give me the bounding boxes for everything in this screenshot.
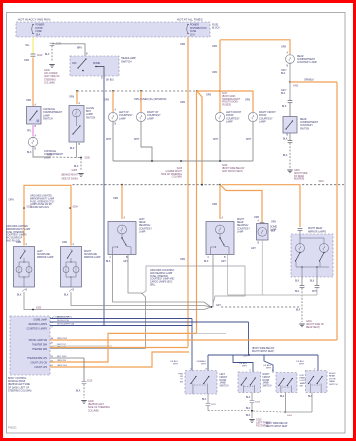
svg-text:(LOWER RIGHT: (LOWER RIGHT (165, 171, 182, 173)
svg-text:FRONT: FRONT (263, 377, 271, 379)
svg-text:ORN: ORN (69, 97, 74, 99)
svg-text:BLK: BLK (45, 54, 50, 56)
svg-text:DRL): DRL) (150, 285, 155, 287)
svg-text:(RIGHT SIDE OF: (RIGHT SIDE OF (306, 324, 325, 326)
svg-text:GRY: GRY (251, 248, 256, 250)
svg-text:S229: S229 (222, 165, 228, 167)
svg-text:S426: S426 (293, 86, 299, 88)
svg-text:S206: S206 (85, 158, 91, 160)
svg-text:ORN: ORN (212, 72, 217, 74)
svg-text:(BEHIND RIGHT: (BEHIND RIGHT (61, 174, 78, 176)
svg-text:BLK: BLK (70, 148, 75, 150)
svg-text:YEL: YEL (25, 45, 30, 47)
svg-text:REAR: REAR (237, 221, 244, 224)
svg-text:(W/O PLUGS): (W/O PLUGS) (6, 241, 20, 243)
svg-text:DISTRIBUTION: DISTRIBUTION (190, 28, 207, 30)
svg-text:STEERING: STEERING (44, 79, 56, 81)
svg-text:(BODY WIRE BELOW: (BODY WIRE BELOW (222, 168, 245, 170)
svg-text:COURTESY: COURTESY (139, 228, 152, 230)
svg-text:SIDE OF DASH): SIDE OF DASH) (61, 178, 78, 181)
svg-text:MIRROR/VANITY LAMP: MIRROR/VANITY LAMP (30, 197, 55, 200)
svg-text:COURTESY: COURTESY (300, 125, 313, 127)
svg-text:REAR: REAR (329, 375, 335, 378)
svg-text:BLK: BLK (295, 281, 300, 283)
svg-text:15 A: 15 A (190, 33, 195, 36)
svg-text:ORN: ORN (104, 100, 109, 102)
svg-text:JAMB: JAMB (329, 380, 335, 383)
svg-text:RIGHT FRONT SEAT): RIGHT FRONT SEAT) (252, 350, 274, 353)
svg-text:SUNSHADE: SUNSHADE (84, 253, 97, 256)
svg-text:BODY WIRE BELOW: BODY WIRE BELOW (266, 423, 288, 425)
svg-text:S247: S247 (243, 356, 249, 358)
svg-text:JAMB: JAMB (300, 382, 306, 385)
svg-text:SW: SW (180, 381, 183, 383)
svg-text:S216: S216 (87, 381, 93, 383)
svg-text:SWITCH: SWITCH (263, 386, 272, 388)
svg-text:MODULE (BCM): MODULE (BCM) (8, 381, 26, 383)
svg-text:G303: G303 (294, 170, 300, 172)
svg-text:RIGHT FRONT SEAT: RIGHT FRONT SEAT (266, 425, 288, 428)
svg-text:FUSE: FUSE (212, 25, 219, 27)
svg-text:LAMPS FUSE ON RH: LAMPS FUSE ON RH (30, 203, 52, 206)
svg-text:BLK: BLK (76, 391, 81, 393)
svg-text:S410: S410 (319, 181, 325, 183)
svg-text:GRY: GRY (221, 261, 226, 263)
svg-text:FUSE, INTERIOR: FUSE, INTERIOR (6, 232, 24, 234)
svg-text:COLUMN): COLUMN) (88, 410, 99, 412)
svg-text:GRY: GRY (216, 305, 221, 307)
svg-text:HARNESS RIGHT: HARNESS RIGHT (222, 98, 241, 101)
svg-text:REAR SEAT): REAR SEAT) (306, 326, 320, 329)
svg-text:COMPARTMENT: COMPARTMENT (300, 121, 319, 124)
svg-text:LAMP/: LAMP/ (86, 113, 93, 116)
svg-text:DK BLU: DK BLU (263, 365, 271, 367)
svg-text:BLK: BLK (295, 291, 300, 293)
svg-text:F96023: F96023 (8, 427, 17, 430)
svg-text:READING LAMPS: READING LAMPS (29, 323, 48, 326)
svg-text:SW: SW (300, 385, 303, 387)
svg-text:DK BLU: DK BLU (106, 80, 114, 82)
svg-text:15 A: 15 A (36, 33, 41, 36)
svg-text:BLOCK: BLOCK (212, 28, 220, 30)
svg-text:LAMP: LAMP (147, 117, 154, 120)
svg-text:GROUNDS COURTESY: GROUNDS COURTESY (150, 270, 175, 272)
svg-text:ORN: ORN (113, 198, 118, 200)
svg-text:DOOR: DOOR (263, 380, 270, 382)
svg-text:SWITCH: SWITCH (121, 59, 132, 63)
svg-text:ORN: ORN (212, 46, 217, 48)
svg-text:S217: S217 (222, 93, 228, 95)
svg-text:DK BLU: DK BLU (170, 361, 178, 363)
svg-text:WHT: WHT (266, 368, 272, 370)
svg-text:WHT: WHT (134, 139, 140, 141)
svg-text:BLK: BLK (204, 261, 209, 263)
svg-text:BLK: BLK (281, 73, 286, 75)
svg-text:BODY CONTROL: BODY CONTROL (8, 378, 27, 380)
svg-text:REAR: REAR (300, 118, 307, 121)
svg-text:(BEHIND LEFT: (BEHIND LEFT (88, 404, 104, 406)
svg-text:GROUNDS LIGHTED: GROUNDS LIGHTED (6, 226, 28, 228)
svg-text:COURTESY LAMPS: COURTESY LAMPS (6, 234, 27, 237)
svg-text:LEFT: LEFT (220, 374, 226, 376)
svg-text:BLK: BLK (246, 397, 251, 399)
svg-text:WHT: WHT (299, 364, 305, 366)
svg-text:REAR: REAR (300, 377, 306, 380)
svg-text:(ON LOWER: (ON LOWER (44, 73, 58, 75)
svg-text:BLK: BLK (246, 408, 251, 410)
svg-text:REAR: REAR (297, 55, 304, 58)
svg-text:SIDE OF STEERING: SIDE OF STEERING (161, 174, 182, 176)
svg-text:BLK: BLK (246, 415, 251, 417)
svg-text:OF REAR: OF REAR (294, 175, 304, 178)
svg-text:READING/: READING/ (237, 224, 249, 227)
svg-text:LEFT FRONT SEAT): LEFT FRONT SEAT) (222, 170, 243, 173)
svg-text:S308: S308 (47, 155, 53, 157)
svg-text:READING/: READING/ (139, 224, 151, 227)
svg-text:COURTESY: COURTESY (237, 228, 250, 230)
svg-text:BLK: BLK (310, 281, 315, 283)
svg-text:BLK: BLK (281, 93, 286, 95)
svg-text:RIGHT: RIGHT (263, 374, 271, 376)
svg-text:LEFT SIDE OF: LEFT SIDE OF (44, 76, 60, 78)
svg-text:ORN: ORN (245, 100, 250, 102)
svg-text:RIGHT: RIGHT (237, 219, 245, 221)
svg-text:S406: S406 (287, 415, 293, 417)
svg-text:BRN: BRN (77, 48, 82, 50)
svg-text:SWITCH: SWITCH (86, 117, 96, 119)
svg-text:ORN/BLK: ORN/BLK (304, 80, 314, 82)
svg-text:BLK: BLK (280, 396, 285, 398)
svg-text:GLOVE: GLOVE (86, 108, 94, 110)
svg-text:(FUSES): (FUSES) (222, 105, 231, 107)
svg-text:JAMB: JAMB (263, 382, 269, 385)
svg-text:ORN: ORN (271, 222, 276, 224)
svg-text:THEATER DIM: THEATER DIM (32, 348, 47, 351)
svg-text:BOX: BOX (86, 111, 91, 113)
svg-text:SWITCH: SWITCH (300, 128, 310, 130)
svg-text:FUSE, INTERIOR CTSY: FUSE, INTERIOR CTSY (30, 201, 55, 203)
svg-text:ORN: ORN (62, 242, 67, 244)
svg-text:DOOR: DOOR (220, 380, 227, 382)
svg-text:MIRROR LAMP: MIRROR LAMP (84, 256, 101, 259)
svg-text:OF DASH, LEFT OF: OF DASH, LEFT OF (8, 386, 30, 389)
svg-text:ORN: ORN (281, 47, 286, 49)
svg-text:G305: G305 (72, 170, 78, 172)
svg-text:JAMB: JAMB (220, 382, 226, 385)
svg-text:WHT: WHT (106, 139, 112, 141)
svg-text:S304: S304 (73, 207, 79, 209)
svg-text:RIGHT: RIGHT (84, 251, 92, 253)
svg-text:S208: S208 (255, 402, 261, 404)
svg-text:ORN: ORN (180, 259, 185, 261)
svg-text:GRY/: GRY/ (281, 70, 287, 72)
svg-text:ORN (FUSED) (B+) (INTERIOR): ORN (FUSED) (B+) (INTERIOR) (134, 99, 167, 101)
svg-text:G200: G200 (44, 70, 50, 72)
svg-text:COURT LPS: COURT LPS (34, 367, 47, 369)
svg-text:WHT: WHT (201, 364, 207, 366)
svg-text:DISTR: DISTR (36, 28, 43, 30)
svg-text:WHT: WHT (173, 364, 179, 366)
svg-text:COURT LPS ON: COURT LPS ON (30, 363, 47, 365)
svg-text:FUSE: FUSE (190, 31, 197, 33)
svg-text:PPL: PPL (27, 131, 32, 133)
svg-text:MIRROR/VANITY LAMP: MIRROR/VANITY LAMP (6, 228, 31, 231)
svg-text:HOT AT ALL TIMES: HOT AT ALL TIMES (177, 18, 203, 22)
svg-text:BLK: BLK (27, 152, 32, 154)
svg-text:LAMP: LAMP (226, 121, 233, 124)
svg-text:OFF: OFF (72, 63, 77, 65)
svg-text:BLK: BLK (283, 155, 288, 157)
svg-text:COUPE W/PLUGS: COUPE W/PLUGS (30, 207, 49, 209)
svg-text:COLUMN): COLUMN) (44, 82, 55, 84)
svg-text:DK BLU: DK BLU (296, 361, 304, 363)
svg-text:CARGO LAMPS (EXC: CARGO LAMPS (EXC (150, 281, 173, 284)
svg-text:BLK: BLK (17, 295, 22, 297)
svg-text:DOME: DOME (93, 63, 100, 65)
svg-text:RIGHT REAR: RIGHT REAR (308, 227, 323, 230)
svg-text:RIGHT: RIGHT (329, 373, 336, 375)
svg-text:TRUNK LAMP SW: TRUNK LAMP SW (28, 339, 47, 342)
svg-text:ORN: ORN (206, 95, 211, 97)
svg-text:ORN: ORN (254, 217, 259, 219)
svg-text:BLK: BLK (202, 399, 207, 401)
svg-text:LAMP: LAMP (259, 121, 266, 124)
svg-text:BLK: BLK (271, 231, 276, 233)
svg-text:G200: G200 (88, 401, 94, 403)
svg-text:GROUNDS LIGHTED: GROUNDS LIGHTED (30, 196, 52, 198)
svg-text:BLK: BLK (283, 139, 288, 141)
svg-text:THEATER DIM LPS: THEATER DIM LPS (27, 357, 47, 360)
svg-text:MIRROR LAMP: MIRROR LAMP (37, 256, 54, 259)
svg-text:ORN: ORN (26, 100, 31, 102)
svg-text:SWITCH: SWITCH (43, 118, 53, 121)
svg-text:SIDE OF STEERING: SIDE OF STEERING (88, 407, 110, 409)
svg-text:STEERING COLUMN): STEERING COLUMN) (8, 390, 32, 392)
svg-text:G401: G401 (306, 321, 312, 323)
svg-text:FRONT: FRONT (220, 377, 228, 379)
svg-text:FRONT DOOR): FRONT DOOR) (222, 102, 238, 104)
svg-text:SWITCH: SWITCH (220, 386, 229, 388)
svg-text:S228: S228 (177, 168, 183, 170)
svg-text:COURTESY LAMP AND: COURTESY LAMP AND (150, 278, 175, 281)
svg-text:WHT: WHT (213, 139, 219, 141)
svg-text:ORN: ORN (24, 60, 29, 62)
svg-text:REAR: REAR (139, 221, 146, 224)
svg-text:SWITCH: SWITCH (329, 384, 338, 386)
svg-text:BLK: BLK (74, 166, 79, 168)
svg-text:SUNSHADE: SUNSHADE (37, 253, 50, 256)
svg-text:DK BLU: DK BLU (239, 363, 247, 365)
svg-text:S210: S210 (37, 55, 43, 57)
svg-text:FUSE, INTERIOR: FUSE, INTERIOR (150, 276, 168, 278)
svg-text:COURTESY LAMPS: COURTESY LAMPS (26, 328, 47, 331)
svg-text:HOT IN ACCY AND RUN: HOT IN ACCY AND RUN (18, 18, 50, 22)
svg-text:COMPARTMENT: COMPARTMENT (297, 58, 316, 61)
svg-text:WHT: WHT (242, 366, 248, 368)
svg-text:DOME: DOME (270, 227, 277, 229)
svg-text:ORN: ORN (180, 44, 185, 46)
svg-text:COLUMN): COLUMN) (172, 177, 183, 179)
svg-text:(BEHIND LEFT SIDE: (BEHIND LEFT SIDE (8, 384, 30, 386)
svg-text:POWER: POWER (36, 25, 45, 27)
svg-text:LEFT: LEFT (37, 251, 43, 253)
svg-text:DOME LAMP: DOME LAMP (34, 319, 48, 322)
svg-text:DOOR: DOOR (329, 378, 336, 380)
svg-text:ORN: ORN (9, 200, 14, 202)
svg-text:AND READING LAMP: AND READING LAMP (150, 272, 173, 275)
svg-text:(BODY WIRE BELOW: (BODY WIRE BELOW (252, 348, 275, 350)
svg-text:ORN: ORN (180, 102, 185, 104)
svg-text:S305: S305 (36, 308, 42, 310)
svg-text:BLK: BLK (64, 295, 69, 297)
svg-text:WHT: WHT (246, 139, 252, 141)
svg-text:LEFT: LEFT (139, 219, 145, 221)
svg-text:COURTESY LAMP: COURTESY LAMP (297, 61, 317, 64)
svg-text:GRY/: GRY/ (281, 90, 287, 92)
svg-text:POWER: POWER (190, 25, 199, 27)
svg-text:LAMP: LAMP (237, 230, 244, 233)
svg-text:LAMP: LAMP (119, 117, 126, 120)
svg-text:ORN/BLK: ORN/BLK (197, 361, 207, 363)
svg-text:G202: G202 (256, 420, 262, 422)
svg-text:W/O SUNROOF: W/O SUNROOF (6, 238, 23, 240)
svg-text:(BODY MAIN: (BODY MAIN (222, 95, 236, 98)
svg-text:MIRROR LAMPS: MIRROR LAMPS (308, 230, 326, 233)
svg-text:S205: S205 (211, 404, 217, 406)
svg-text:BUMPER): BUMPER) (294, 179, 305, 181)
svg-text:LAMP: LAMP (139, 230, 146, 233)
svg-text:ORN: ORN (212, 204, 217, 206)
svg-text:BLK: BLK (106, 261, 111, 263)
svg-text:FUSE: FUSE (36, 31, 43, 33)
svg-text:(RIGHT SIDE: (RIGHT SIDE (294, 173, 308, 175)
svg-text:BLK: BLK (296, 310, 301, 312)
svg-text:BLK: BLK (282, 106, 287, 108)
svg-text:THEATER DIM: THEATER DIM (32, 344, 47, 347)
